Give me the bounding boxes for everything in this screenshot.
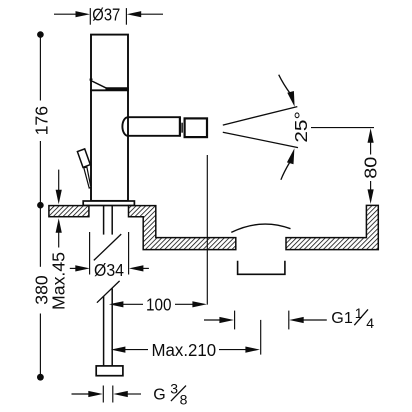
dot 176/380 mid [37,202,44,209]
break slash 2 [97,281,120,303]
fraction numerator 3 [170,381,187,408]
fraction slash G1 1/4 [354,309,368,325]
dim Max.210 [124,349,149,351]
fraction slash G 3/8 [171,386,186,402]
base plate [83,201,134,206]
dim G1 1/4 [204,319,221,321]
25 deg rays [223,107,297,126]
svg-text:Ø37: Ø37 [92,5,120,25]
dim 80 arrows [368,128,374,143]
dim Max.45 arrows [56,190,62,205]
svg-text:80: 80 [361,157,381,179]
shank upper segment [104,206,113,235]
svg-text:8: 8 [180,391,188,407]
25 deg leader arcs [279,75,291,94]
dim 176/380 vertical [39,35,41,101]
aerator connector stub [181,123,183,133]
dim Ø37 lines [54,13,78,15]
dim G 3/8 arrows [88,391,103,397]
body cartridge seam lower edge [90,89,129,91]
supply connector block [96,366,123,376]
lever handle stem [84,167,91,188]
svg-text:4: 4 [366,315,374,331]
svg-text:25°: 25° [291,111,311,142]
svg-text:G: G [153,387,165,404]
svg-text:G1: G1 [331,310,353,327]
dim Ø34 arrows [75,265,90,271]
body joint thick seam [106,87,129,89]
svg-text:1: 1 [355,305,363,321]
25 deg arc arrowheads [287,91,294,107]
fraction numerator 1 [355,305,375,331]
label G 3/8 [153,387,165,404]
notch jog [90,78,93,80]
dim Ø34 [89,232,91,275]
svg-text:Max.210: Max.210 [152,340,217,360]
dim Max.45 [58,170,60,192]
dim G 3/8 [72,393,91,395]
dim Max.210 arrows [111,347,126,353]
dim Ø37 arrows [76,11,91,17]
drain cup [238,261,285,275]
dim 100 arrows [109,301,124,307]
countertop right slab with rim [286,205,378,249]
dot 380 bottom [37,374,44,381]
shank lower segment [104,289,113,366]
lever handle paddle [77,149,90,168]
arrowheads [37,11,374,397]
dot 176 top [37,31,44,38]
svg-text:Max.45: Max.45 [49,252,69,310]
faucet body [90,35,129,201]
svg-text:100: 100 [146,295,172,315]
break slash 1 [94,234,121,260]
svg-text:Ø34: Ø34 [94,260,124,280]
body diagonal notch [90,80,108,89]
svg-text:176: 176 [31,106,51,136]
countertop mid slab with basin step [129,206,236,250]
basin arc [231,224,290,232]
dim 80 [311,127,374,129]
aerator [185,118,207,137]
label G1 1/4 [331,310,353,327]
dim G1 1/4 arrows [219,317,234,323]
dim 100 [122,303,144,305]
countertop left slab [49,206,89,217]
spout [122,116,207,137]
